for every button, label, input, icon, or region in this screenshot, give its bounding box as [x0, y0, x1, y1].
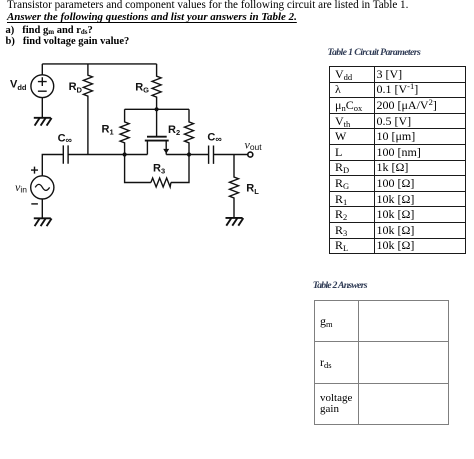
svg-text:RL: RL: [246, 183, 259, 196]
svg-text:Vdd: Vdd: [10, 78, 27, 92]
capacitor C1 input coupling: [63, 145, 68, 163]
resistor RL: [230, 155, 239, 218]
caption Table 2: [313, 281, 367, 291]
wire VDD top rail: [42, 63, 156, 65]
resistor R3: [151, 178, 171, 187]
Table 1: [329, 66, 466, 254]
Table 2: [314, 300, 449, 425]
source vin: [31, 176, 54, 218]
svg-text:vout: vout: [245, 137, 263, 152]
svg-text:RD: RD: [69, 81, 83, 94]
wire C2 to vout: [214, 154, 249, 156]
svg-text:vin: vin: [15, 180, 27, 195]
dc source VDD: [31, 64, 54, 118]
svg-text:R1: R1: [102, 124, 114, 137]
node gate junction: [155, 107, 159, 111]
ground (VDD source): [34, 118, 52, 126]
transistor M1 gate lead: [156, 109, 158, 136]
ground (vin): [34, 218, 52, 226]
wire R3 right branch: [171, 155, 189, 183]
node B source junction: [187, 152, 191, 156]
svg-text:R2: R2: [168, 124, 180, 137]
label minus (vin): [31, 203, 38, 205]
svg-text:R3: R3: [153, 163, 165, 176]
svg-text:C∞: C∞: [207, 131, 222, 144]
svg-text:C∞: C∞: [58, 132, 73, 145]
wire source node to C2: [166, 154, 208, 156]
heading line 2: [7, 12, 297, 23]
wire R3 left branch: [125, 155, 151, 183]
question a: [6, 25, 93, 36]
label plus (vin): [31, 167, 38, 174]
question b: [6, 36, 130, 47]
ground (RL): [226, 218, 244, 226]
terminal vout: [248, 152, 253, 157]
resistor R2: [185, 109, 194, 154]
wire vin to C1: [42, 155, 63, 177]
svg-text:RG: RG: [135, 81, 149, 94]
heading line 1: [7, 0, 408, 11]
wire C1 to drain node: [68, 154, 147, 156]
node A drain junction: [123, 152, 127, 156]
resistor R1: [120, 109, 129, 154]
capacitor C2 output coupling: [209, 146, 214, 164]
resistor RD: [83, 64, 92, 155]
resistor RG: [152, 64, 161, 109]
transistor M1: [145, 137, 169, 155]
wire gate rail: [125, 108, 189, 110]
caption Table 1: [328, 48, 421, 58]
